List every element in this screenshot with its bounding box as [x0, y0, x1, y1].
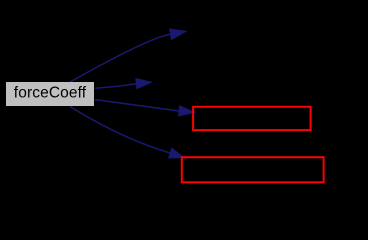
wire edge2 forceCoeff -> second node	[95, 84, 137, 88]
node red box 2 (truncated node)	[182, 157, 324, 182]
wire edge4 forceCoeff -> node with red box 2	[70, 107, 170, 154]
svg-text:forceCoeff: forceCoeff	[14, 84, 87, 101]
wire edge3 forceCoeff -> node with red box 1	[95, 100, 179, 111]
wire edge1 forceCoeff -> top node	[70, 34, 171, 82]
node forceCoeff (gray box)	[6, 82, 94, 106]
arrowhead edge3	[179, 106, 195, 116]
arrowhead edge1	[170, 29, 186, 40]
arrowhead edge2	[136, 79, 151, 89]
node red box 1 (truncated node)	[193, 107, 311, 130]
arrowhead edge4	[169, 148, 184, 158]
